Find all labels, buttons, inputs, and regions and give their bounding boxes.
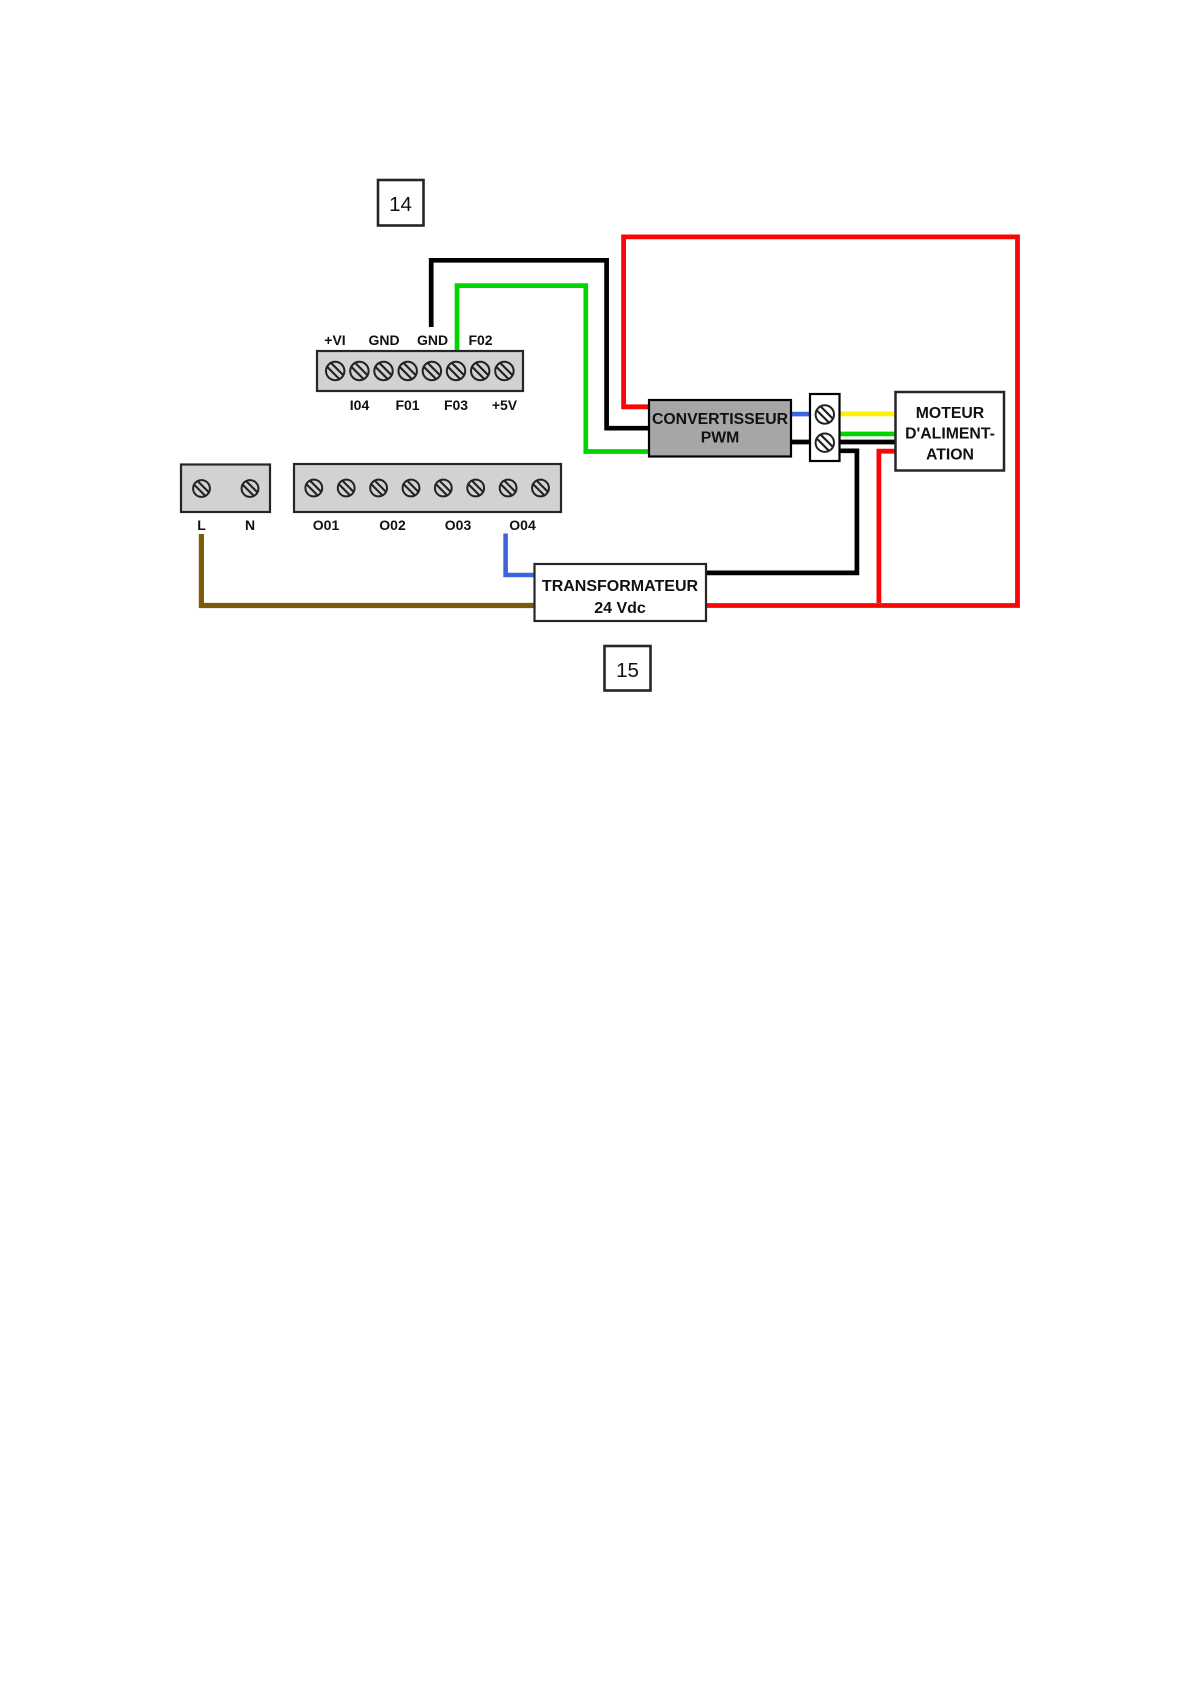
svg-text:ATION: ATION	[926, 446, 974, 463]
terminal block L/N	[181, 465, 270, 513]
wire brown L to transformateur	[201, 534, 536, 606]
terminal screw 5 (GND)	[423, 362, 441, 380]
wire black transformateur to screw block	[705, 451, 857, 573]
terminal screw 2 (I04)	[350, 362, 368, 380]
terminal screw O01-a	[305, 480, 322, 497]
svg-text:MOTEUR: MOTEUR	[916, 405, 985, 422]
terminal screw O03-a	[435, 480, 452, 497]
svg-text:D'ALIMENT-: D'ALIMENT-	[905, 426, 995, 443]
wire red convertisseur to transformateur loop	[624, 237, 1018, 606]
junction screw 2	[816, 434, 834, 452]
svg-text:TRANSFORMATEUR: TRANSFORMATEUR	[542, 578, 699, 595]
terminal screw O04-b	[532, 480, 549, 497]
svg-text:L: L	[197, 517, 206, 533]
terminal screw O01-b	[338, 480, 355, 497]
wire blue O04 to transformateur	[506, 534, 536, 576]
svg-text:PWM: PWM	[701, 429, 740, 446]
wire black GND to convertisseur	[431, 260, 650, 428]
wire yellow screw block to moteur	[826, 411, 896, 416]
terminal screw 1 (+VI)	[326, 362, 344, 380]
svg-text:+VI: +VI	[324, 332, 345, 348]
svg-text:GND: GND	[368, 332, 399, 348]
svg-text:O04: O04	[509, 517, 536, 533]
svg-text:+5V: +5V	[492, 397, 518, 413]
wire green F03 to convertisseur	[457, 286, 650, 452]
convertisseur PWM box	[649, 400, 791, 457]
terminal block +VI/GND/GND/F02	[317, 351, 523, 391]
svg-text:O03: O03	[445, 517, 472, 533]
svg-text:14: 14	[389, 193, 412, 216]
wire red branch to moteur	[879, 451, 895, 603]
svg-text:O01: O01	[313, 517, 340, 533]
node 14 reference box	[378, 180, 424, 226]
svg-text:15: 15	[616, 659, 639, 682]
moteur d'alimentation box	[896, 392, 1005, 471]
svg-text:CONVERTISSEUR: CONVERTISSEUR	[652, 411, 789, 428]
svg-text:F01: F01	[395, 397, 419, 413]
wire blue convertisseur to screw block	[790, 412, 826, 417]
terminal screw O04-a	[500, 480, 517, 497]
svg-text:I04: I04	[350, 397, 370, 413]
svg-text:N: N	[245, 517, 255, 533]
junction screw 1	[816, 405, 834, 423]
terminal screw O02-b	[403, 480, 420, 497]
screw junction block	[810, 394, 840, 461]
terminal screw 3 (GND)	[374, 362, 392, 380]
wire green screw block to moteur	[839, 432, 896, 437]
terminal screw 7 (F02)	[471, 362, 489, 380]
terminal screw O02-a	[370, 480, 387, 497]
terminal screw O03-b	[467, 480, 484, 497]
terminal screw 8 (+5V)	[495, 362, 513, 380]
wire black convertisseur through screw block to moteur	[790, 440, 896, 445]
svg-text:O02: O02	[379, 517, 406, 533]
terminal screw 6 (F03)	[447, 362, 465, 380]
svg-text:F03: F03	[444, 397, 468, 413]
terminal screw L	[193, 480, 210, 497]
svg-text:24 Vdc: 24 Vdc	[594, 600, 646, 617]
svg-text:F02: F02	[468, 332, 492, 348]
terminal screw 4 (F01)	[399, 362, 417, 380]
node 15 reference box	[605, 646, 651, 691]
terminal block O01-O04	[294, 464, 561, 512]
transformateur 24Vdc box	[535, 564, 707, 621]
svg-text:GND: GND	[417, 332, 448, 348]
terminal screw N	[242, 480, 259, 497]
